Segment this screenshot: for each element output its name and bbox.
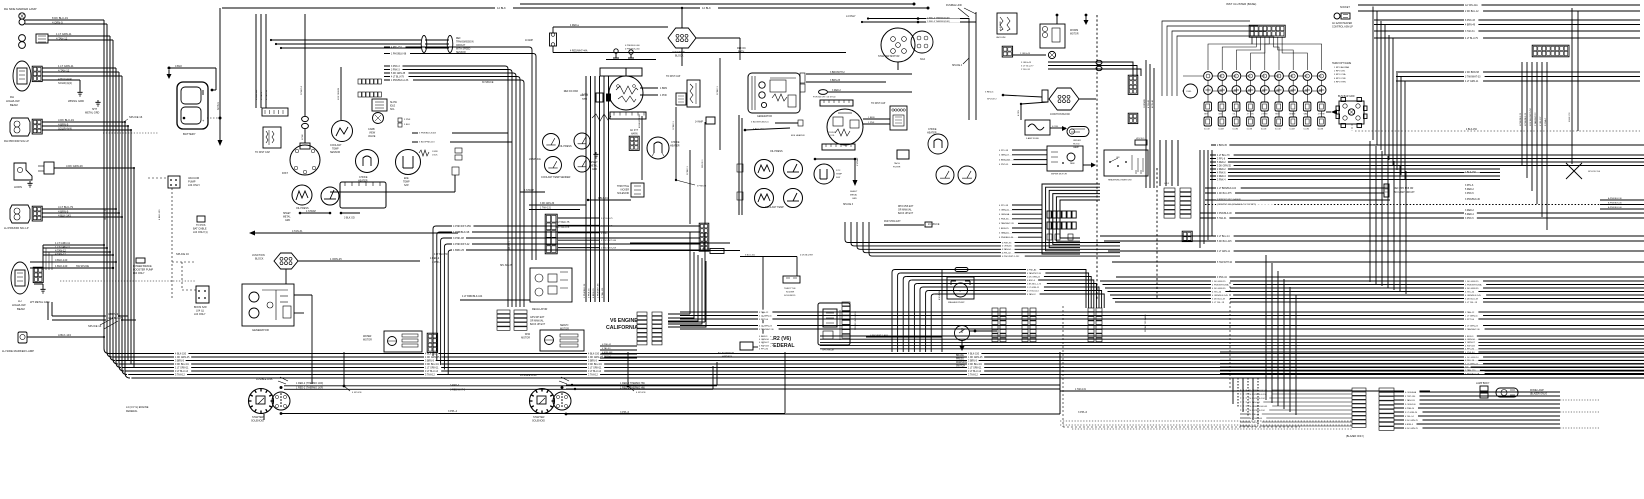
svg-text:1 RED-2 (THERMO 1/0F): 1 RED-2 (THERMO 1/0F) [296,382,323,385]
wire LH headlamp leads [43,244,104,246]
ground lh [40,287,45,293]
svg-text:WINNG GRD: WINNG GRD [68,99,84,103]
svg-text:SOL: SOL [390,109,395,111]
connector wcl [1128,113,1138,123]
svg-text:1 LT GRN-11: 1 LT GRN-11 [55,245,71,249]
wire far right verticals [1569,8,1578,164]
connector TO POS BAT CABLE [197,216,205,222]
svg-text:3 DK GRN-30: 3 DK GRN-30 [540,203,555,205]
choke heater left [356,150,379,173]
svg-text:SLOW: SLOW [390,102,398,104]
svg-text:3 PNK-34: 3 PNK-34 [1217,277,1228,279]
connector junction feed [1042,90,1048,102]
svg-text:BRAKE: BRAKE [1289,113,1296,116]
svg-text:10 AMP: 10 AMP [525,39,534,42]
svg-text:2 ORG-43: 2 ORG-43 [1020,53,1031,55]
svg-text:5-A CORE: 5-A CORE [999,20,1002,30]
svg-text:3 BLU-150: 3 BLU-150 [745,255,756,257]
wire lt brn [460,299,530,301]
svg-text:A4 TAN-41A: A4 TAN-41A [1465,4,1478,7]
svg-text:FEDERAL: FEDERAL [770,343,795,349]
wire ppl risers [784,352,786,413]
svg-text:4 DK GRN-29: 4 DK GRN-29 [66,164,83,168]
wire top right verticals [1373,7,1405,181]
svg-text:A/C EXTENSION: A/C EXTENSION [718,352,735,355]
gauge oil press L4cal 2 [321,187,339,205]
svg-text:ILLUM: ILLUM [1233,129,1239,131]
connector grlid [710,249,724,254]
wire wiper right verticals [1144,60,1154,188]
svg-text:4 BRN-048: 4 BRN-048 [602,352,613,354]
svg-text:RH PRK/DIR SIG LP: RH PRK/DIR SIG LP [4,139,29,143]
svg-text:2 RPO LR1: 2 RPO LR1 [1334,71,1346,73]
svg-text:4 MOA-4M: 4 MOA-4M [938,290,941,300]
connector bk3 [1180,188,1191,218]
svg-text:4 PPL-39: 4 PPL-39 [999,150,1009,152]
svg-text:8 DK BLU-19: 8 DK BLU-19 [52,16,68,20]
wire LH grd [34,283,43,285]
svg-text:4 PNK/BLK-36: 4 PNK/BLK-36 [999,237,1014,239]
wire dotted splice [103,132,158,134]
wire 1 TAN-131 long [1060,390,1430,392]
svg-text:3 TAN-12: 3 TAN-12 [175,373,185,376]
coil ignition L4cal [263,127,281,148]
svg-text:FUSIBLE LINK: FUSIBLE LINK [520,374,537,377]
node pnko [675,179,677,181]
wire blazer feeder labels [1240,390,1352,428]
cluster bulbs row 2 [1204,86,1326,95]
svg-text:SPLICE 150: SPLICE 150 [1588,171,1601,173]
svg-text:1 PHO/BLK-98: 1 PHO/BLK-98 [391,53,407,55]
svg-text:SOLENOID: SOLENOID [617,193,629,195]
svg-text:SENSOR: SENSOR [330,151,340,154]
svg-text:4 ORG: 4 ORG [1018,110,1020,116]
svg-text:LH SIDE MARKER LAMP: LH SIDE MARKER LAMP [2,349,34,353]
svg-text:4 RED-2: 4 RED-2 [430,257,440,260]
choke heater V6 [647,137,669,159]
connector headlamp LH [33,267,43,282]
connector row B cluster [358,92,381,97]
generator V6 [748,73,800,113]
svg-text:24 SPLICE: 24 SPLICE [928,224,940,226]
svg-text:4 PNO/PWT-1-232: 4 PNO/PWT-1-232 [1002,256,1020,258]
ref rpo bv8 component [1384,184,1389,197]
svg-text:1 PNB/BLK-98: 1 PNB/BLK-98 [453,231,470,234]
starter solenoid L4 fed motor [272,392,290,410]
term opt list [1332,62,1352,83]
ground sm [95,100,100,106]
svg-text:HIGH/LOW: HIGH/LOW [12,303,26,307]
ac extension harness label [740,342,753,350]
svg-text:3 ORN-31: 3 ORN-31 [999,209,1010,211]
svg-text:VACUUM: VACUUM [996,36,1005,39]
svg-text:3 ORN-240: 3 ORN-240 [1405,404,1416,406]
svg-text:4 RED-a: 4 RED-a [570,25,580,27]
svg-text:5 RED-4: 5 RED-4 [1465,214,1475,216]
svg-text:1 BRN-25: 1 BRN-25 [999,228,1009,230]
svg-text:TEMP: TEMP [836,174,843,176]
svg-text:SPLICE 3: SPLICE 3 [702,160,704,168]
svg-text:BAIN: BAIN [582,98,588,101]
wire battery positive 32 BLK [219,8,221,118]
cluster bulbs row 1 [1204,72,1326,81]
wire right long bus group 3 [680,323,1644,331]
EPS relay box [818,303,850,345]
svg-text:3 PPL-6: 3 PPL-6 [1078,411,1088,414]
wire fusible link ticks [278,381,286,384]
wire fusible link 2 ticks [559,381,567,384]
svg-text:3 PNK/BLK-30: 3 PNK/BLK-30 [1217,213,1232,215]
svg-text:SHEET: SHEET [590,162,598,164]
dome lamp blazer [1496,388,1518,397]
svg-text:3 TAN-12: 3 TAN-12 [968,373,978,376]
svg-text:3 PPL-6: 3 PPL-6 [1465,185,1474,187]
svg-text:3 RED-5: 3 RED-5 [985,92,994,94]
wire cmid leads [558,218,617,250]
svg-text:IDLE: IDLE [390,106,396,108]
svg-text:4 PPL-A3: 4 PPL-A3 [1151,100,1154,108]
wire 4 strap [299,212,302,215]
inst cluster harness nest [1162,21,1274,96]
wire 4 RED-A [553,26,668,28]
lamp RH side marker [19,13,25,25]
svg-text:ILLUM: ILLUM [1204,129,1210,131]
connector dist cap bar [262,108,288,116]
wire grommet leads [48,35,110,37]
wire blazer B leads [1394,390,1600,430]
gauge v6fed coolant 1 [755,189,774,208]
wiper motor center [540,330,584,351]
connector wcu [1128,75,1138,94]
svg-text:3 PNK-5: 3 PNK-5 [1465,218,1474,220]
svg-text:3 LT GRN-11: 3 LT GRN-11 [1217,251,1231,253]
svg-text:4 BRN-29: 4 BRN-29 [593,288,595,298]
splice 150 [1566,163,1601,179]
starter motor V6-cal [592,68,646,121]
wire solenoid ppl [281,413,785,415]
svg-text:PUMP: PUMP [188,180,196,184]
svg-text:SPLICE 2: SPLICE 2 [987,99,997,101]
brake press switch [955,326,970,352]
svg-text:4 BRN-9: 4 BRN-9 [1405,424,1414,426]
svg-text:1 BRN: 1 BRN [660,87,667,90]
svg-text:3 TAN/WHT-30: 3 TAN/WHT-30 [759,328,774,331]
wire wiper stubs [1056,15,1058,24]
starter motor top right [911,31,933,53]
svg-text:2 YEL-91: 2 YEL-91 [1021,69,1031,71]
generator L4 [242,284,294,326]
svg-text:4 YEL-14: 4 YEL-14 [1405,416,1414,418]
svg-text:VALVE: VALVE [368,135,376,138]
svg-text:1 TAN-131: 1 TAN-131 [1075,388,1087,391]
svg-text:FUEL: FUEL [1187,91,1193,93]
starter motor top right solenoid [881,28,915,62]
connector lm [427,333,437,352]
connector small efe [398,118,402,127]
svg-text:3 RED-2: 3 RED-2 [450,384,460,387]
svg-text:4 LT BLU-75: 4 LT BLU-75 [601,225,613,227]
wire battery to ground arrow [219,118,221,140]
connector cpC2 [1096,308,1102,342]
wire splice vertical [343,352,345,386]
svg-text:1 BLK-150: 1 BLK-150 [1465,172,1477,174]
power brake booster pump label [136,258,145,263]
svg-text:FEDERAL: FEDERAL [126,410,138,413]
underhood lamp [1067,127,1089,137]
connector blazerA [1352,388,1366,427]
svg-text:4 BLK-150: 4 BLK-150 [1466,129,1478,131]
gauge fuel [1184,84,1198,98]
svg-text:HEATER/BLOWER S/W: HEATER/BLOWER S/W [1108,179,1132,182]
svg-text:STARTER MOTOR: STARTER MOTOR [878,55,900,58]
svg-text:WITH SPEED: WITH SPEED [456,49,471,51]
wire mid right bus group B [1100,186,1644,279]
svg-text:HARN: HARN [631,133,638,136]
ground horn [27,181,32,187]
svg-text:L4 (4 CYL) ENGINE: L4 (4 CYL) ENGINE [126,406,149,409]
svg-text:4 PNK/DKT-259: 4 PNK/DKT-259 [453,225,471,228]
svg-text:ILLUM: ILLUM [1289,129,1295,131]
svg-text:4 BRN-9: 4 BRN-9 [58,210,69,214]
svg-text:4 PNO/PWT-1-AA3: 4 PNO/PWT-1-AA3 [870,334,889,337]
svg-text:1 PNK/DKT-98: 1 PNK/DKT-98 [598,283,600,298]
wire headlamp ground [42,79,80,81]
wire wiper bundle right [1020,60,1141,76]
svg-text:SPLICE 14: SPLICE 14 [88,324,102,328]
svg-text:4 PNK-56: 4 PNK-56 [999,219,1009,221]
distributor V6fed [827,109,863,145]
svg-text:CIRCUIT: CIRCUIT [456,45,466,47]
gauge ct1 [545,157,562,174]
svg-text:4 LT BRN-64: 4 LT BRN-64 [1250,418,1263,420]
svg-text:FILTER: FILTER [893,167,901,169]
wire cluster inter-row verticals [1208,80,1322,117]
regulator V6 box [530,268,572,302]
wire 4 ORG drop [1020,103,1022,105]
wire left bundle short stubs [128,126,134,368]
svg-text:TERM OPT NAME: TERM OPT NAME [1332,62,1352,65]
svg-text:FOR B4 OR #13 STUD: FOR B4 OR #13 STUD [813,97,836,99]
svg-text:4 TEL-A3: 4 TEL-A3 [1147,100,1150,108]
wire cluster bulbs connect [1182,76,1322,91]
svg-text:3 PPT-50: 3 PPT-50 [1465,319,1475,321]
wire splice14 arrows [100,318,113,325]
svg-text:WASHER PUMP: WASHER PUMP [948,301,965,304]
wire case grd drop [641,116,643,180]
efe temp switch [396,150,421,175]
svg-text:COOLANT TEMP: COOLANT TEMP [765,206,784,209]
wire right bulkhead feeds upper [998,148,1047,167]
label rotated right wires [1520,107,1547,126]
svg-text:4 LT BRN/BLK-104: 4 LT BRN/BLK-104 [1217,188,1237,190]
svg-text:HTR/ BLO: HTR/ BLO [1136,138,1145,140]
wire v6 cluster verticals [737,115,743,215]
svg-text:(ORN/PNT-130 (W/GAGES-TO TOP R: (ORN/PNT-130 (W/GAGES-TO TOP RPT) [1217,203,1256,206]
svg-text:5 AMP FUSE: 5 AMP FUSE [1026,137,1039,140]
wire junction block feed [298,260,420,262]
svg-text:SPL SIG 25: SPL SIG 25 [500,265,513,267]
connector v6A [637,312,647,345]
svg-text:4 LT GRN-11: 4 LT GRN-11 [1465,81,1479,83]
carb idle stop solenoid [373,113,384,124]
svg-text:5 BLK: 5 BLK [404,124,410,126]
svg-text:ILLUM: ILLUM [1275,129,1281,131]
svg-text:1 LT GRN-11: 1 LT GRN-11 [58,64,74,68]
wire splice4 arrow [963,58,969,64]
svg-text:4 GRA-81: 4 GRA-81 [999,231,1010,234]
gauge v6fed oil 2 [784,160,803,179]
svg-text:4 PNK/BLK-30: 4 PNK/BLK-30 [1525,112,1527,126]
svg-text:2 DK BRN-58: 2 DK BRN-58 [1465,72,1480,74]
connector bulkhead grid B [1047,222,1076,229]
svg-text:1 RED-2 (THERMO 1/0F): 1 RED-2 (THERMO 1/0F) [296,387,323,390]
wire top right lines C [1396,70,1640,83]
wire fusible links pointers [958,8,969,17]
gauge op2 [574,133,590,149]
connector cpC [1088,308,1094,342]
svg-text:4 ORN-B4A: 4 ORN-B4A [1405,391,1417,394]
svg-text:4 TAN-12: 4 TAN-12 [55,249,66,253]
wire blk pnk 013 [412,141,512,143]
gauge gr2 [958,166,976,184]
svg-text:8 PNK-33: 8 PNK-33 [1465,20,1476,22]
wire solenoid feeds [284,385,717,387]
svg-text:V6 ENGINE: V6 ENGINE [610,318,638,324]
wire headlamp leads [42,67,116,69]
svg-text:3 TAN/WHT-33: 3 TAN/WHT-33 [1465,75,1481,78]
wire right long bus group 2 [680,310,1644,321]
svg-text:SPLICE 3: SPLICE 3 [843,204,854,206]
svg-text:TRANSMISSION: TRANSMISSION [456,41,474,44]
wire 3 BRN-25 [806,81,886,83]
svg-text:4 LT BLU-79: 4 LT BLU-79 [58,205,73,209]
svg-text:3 BLK GD: 3 BLK GD [344,217,355,220]
svg-text:3 PNK/BLK-30: 3 PNK/BLK-30 [1465,199,1481,201]
wire v6fed verticals [668,252,706,327]
wire regulator verticals [586,76,609,302]
node solenoid2 top [561,386,564,389]
svg-text:4 BLK-150: 4 BLK-150 [159,209,161,220]
svg-text:HEATER: HEATER [670,145,680,148]
fuse inline washer [942,268,968,272]
svg-text:HARNESS: HARNESS [722,355,733,358]
wire battery plus dashed [207,117,220,119]
wire v6 connector leads [600,344,637,358]
svg-text:4 PPL-92: 4 PPL-92 [759,349,769,351]
ref transmission speed sensor [421,36,453,53]
wire bundle left vertical to bus [104,20,130,378]
capacitor pair [613,49,634,58]
connector reg A [497,310,510,330]
boost switch L04 [196,286,209,303]
junction block center [668,28,696,48]
svg-text:4 DK BLK/WHT-434: 4 DK BLK/WHT-434 [1530,107,1532,126]
label regulator wires rotated [584,283,604,298]
svg-text:3 BRO/WHT-2: 3 BRO/WHT-2 [830,72,845,74]
svg-text:1 RPO AUX/AB: 1 RPO AUX/AB [1334,66,1350,69]
svg-text:BUS BAR GRD: BUS BAR GRD [1338,95,1355,98]
node second line end [913,3,916,6]
svg-text:WIPER MOTOR: WIPER MOTOR [1051,174,1067,176]
svg-text:PRESS: PRESS [956,359,964,361]
gauge oil press L4cal 1 [292,185,312,205]
node left bundle joins [103,121,135,338]
throttle kicker solenoid center [631,183,644,197]
svg-text:3 RPO C5A: 3 RPO C5A [1334,73,1346,76]
choke heater right [928,134,948,154]
wire top second line [520,3,914,5]
wire center mid labels [556,221,570,229]
wire park lamp leads [42,121,125,123]
connector lamp body [1476,382,1490,398]
svg-text:4 DK BLU/WT: 4 DK BLU/WT [800,255,814,257]
connector blazerB [1379,388,1394,430]
svg-text:1 RED-2 THERMO HW: 1 RED-2 THERMO HW [620,387,646,390]
svg-text:3 RED-2: 3 RED-2 [832,90,842,92]
svg-text:BEAM: BEAM [10,103,18,107]
wire top bus 12 BLK left segment [222,7,495,9]
svg-text:1 TAN-131: 1 TAN-131 [540,207,552,210]
connector cpB [1022,308,1028,342]
svg-text:BLOCK: BLOCK [675,55,684,58]
svg-text:3 PNK-3: 3 PNK-3 [432,261,442,264]
node cluster feed [270,39,272,41]
wire right vertical bundle to bottom [1200,150,1212,248]
svg-text:4 ORN-9: 4 ORN-9 [52,21,63,25]
wire dashed riser right [1229,282,1231,390]
svg-text:4 DK BLU-675: 4 DK BLU-675 [1217,193,1232,195]
wire coil drop [675,107,677,180]
wire dist vertical 2 [304,129,306,143]
svg-text:4 TAN-12: 4 TAN-12 [1027,293,1037,296]
svg-text:5 TAN-31: 5 TAN-31 [1217,217,1227,220]
node 32 blk [219,117,222,120]
wire fusible vertical pair [968,18,970,120]
connector reg B [514,310,527,330]
svg-text:3 BRN-25: 3 BRN-25 [830,80,841,82]
svg-text:TO DIST CAP: TO DIST CAP [255,151,270,154]
starter solenoid V6 fed motor [553,392,571,410]
wire par strg [884,224,924,226]
wire firewall dashed vertical [1096,15,1098,300]
svg-text:4 TERM: 4 TERM [1318,114,1325,116]
heater blower switch [1104,150,1148,176]
connector cpB2 [1030,308,1036,342]
svg-text:SHEET: SHEET [283,213,291,215]
wire pno pwt bottom [866,336,942,338]
svg-text:12 BLK: 12 BLK [497,6,506,10]
wire blazer short verticals [1233,378,1258,424]
wire bulkhead harness nest [1042,184,1100,254]
svg-text:1 ORN-25: 1 ORN-25 [330,257,342,261]
wire vacuum pump dashed [171,188,173,300]
svg-text:L04 ONLY: L04 ONLY [188,183,200,187]
svg-text:30 SPLICE: 30 SPLICE [482,82,494,84]
grommet pass-through pair [1096,60,1102,64]
svg-text:REF RPO BV8 OR: REF RPO BV8 OR [1394,188,1414,190]
connector bsg [1182,231,1192,241]
wire cluster upper pair [384,45,536,260]
svg-text:4 TAN-31: 4 TAN-31 [292,230,303,233]
svg-text:WT METAL GRD: WT METAL GRD [30,300,50,304]
svg-text:LH PRK/DIR SIG LP: LH PRK/DIR SIG LP [4,226,29,230]
svg-text:1 LT GRN-11: 1 LT GRN-11 [56,32,72,36]
node solenoid top [280,386,283,389]
connector efe small [798,120,803,126]
wire cluster top fan [384,64,524,307]
svg-text:LAMP BODY: LAMP BODY [1476,382,1490,385]
fuse 5 amp [1025,120,1050,135]
